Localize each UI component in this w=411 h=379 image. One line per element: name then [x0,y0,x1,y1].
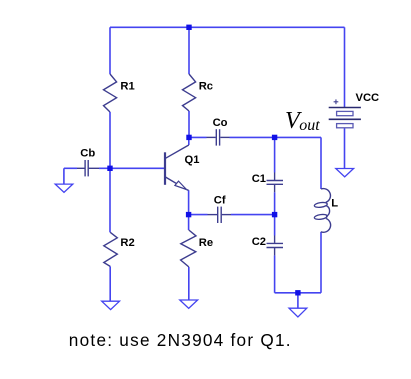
svg-text:C2: C2 [252,236,266,248]
svg-text:R2: R2 [120,237,134,249]
svg-text:Re: Re [199,237,213,249]
svg-text:VCC: VCC [356,92,380,104]
svg-text:Rc: Rc [199,81,213,93]
svg-text:R1: R1 [120,80,134,92]
svg-text:out: out [299,117,320,134]
svg-text:C1: C1 [252,173,266,185]
svg-text:Co: Co [213,117,228,129]
svg-text:note: use 2N3904 for Q1.: note: use 2N3904 for Q1. [69,330,292,350]
svg-text:Q1: Q1 [185,154,200,166]
svg-text:Cb: Cb [80,148,95,160]
svg-text:L: L [331,198,338,210]
svg-text:Cf: Cf [214,195,226,207]
